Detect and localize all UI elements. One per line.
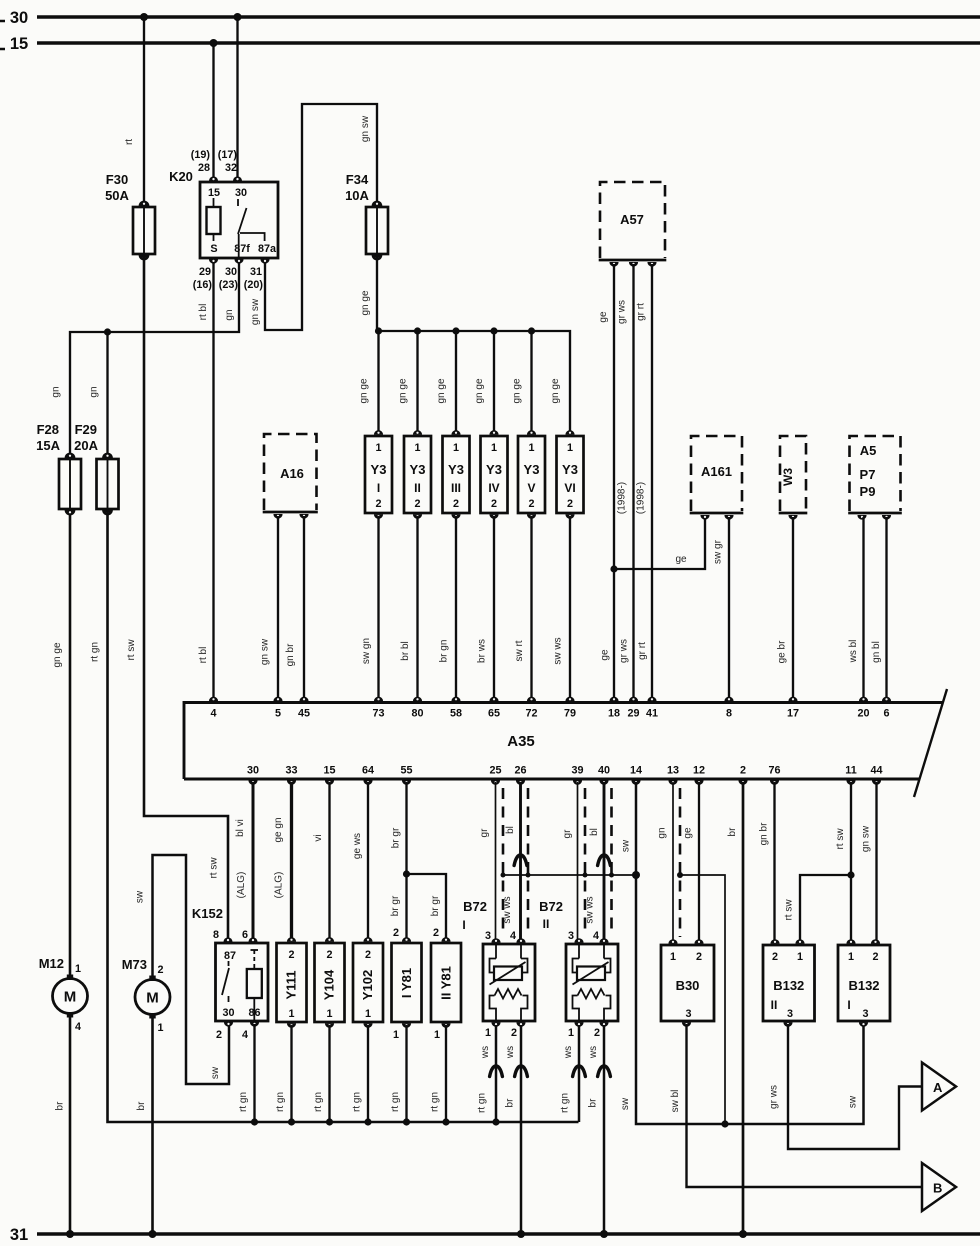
svg-text:rt gn: rt gn bbox=[477, 1093, 488, 1113]
junction shield bus / sw wire bbox=[632, 871, 640, 879]
svg-text:1: 1 bbox=[75, 963, 81, 975]
svg-text:rt gn: rt gn bbox=[560, 1093, 571, 1113]
A5 pin left bbox=[857, 515, 866, 520]
wire rt gn: F29 to valve supply bus bbox=[108, 509, 579, 1122]
svg-text:2: 2 bbox=[375, 498, 381, 510]
wire gn sw: K20-31 to F34 bbox=[265, 104, 377, 330]
svg-text:1: 1 bbox=[568, 1027, 574, 1039]
svg-text:1: 1 bbox=[528, 442, 534, 454]
svg-text:gn ge: gn ge bbox=[398, 378, 409, 403]
wire rt gn: Y81 I to supply bus bbox=[405, 1025, 407, 1122]
junction gn ge bus / Y3 5 bbox=[528, 327, 535, 334]
svg-text:rt gn: rt gn bbox=[90, 642, 101, 662]
svg-text:A5: A5 bbox=[860, 443, 877, 458]
svg-text:80: 80 bbox=[411, 708, 423, 720]
svg-text:gr rt: gr rt bbox=[636, 303, 647, 321]
svg-text:gn ge: gn ge bbox=[359, 378, 370, 403]
sensor B132 II bbox=[763, 939, 815, 1027]
svg-text:Y3: Y3 bbox=[524, 462, 540, 477]
A35 pin 41 (top) bbox=[647, 697, 656, 702]
wire gn ge to Y3 II bbox=[416, 331, 418, 433]
svg-text:gn: gn bbox=[89, 386, 100, 397]
svg-text:2: 2 bbox=[414, 498, 420, 510]
junction Y81 II/rt gn bus bbox=[442, 1118, 449, 1125]
wire gn ge to Y3 IV bbox=[493, 331, 495, 433]
svg-text:rt: rt bbox=[124, 139, 135, 145]
svg-text:20A: 20A bbox=[74, 438, 98, 453]
K20 pin 30 terminal bbox=[234, 259, 243, 264]
svg-text:F30: F30 bbox=[106, 172, 128, 187]
svg-text:gn: gn bbox=[51, 386, 62, 397]
connector plug B bbox=[922, 1163, 956, 1211]
svg-text:rt gn: rt gn bbox=[390, 1092, 401, 1112]
wire rt gn: Y81 II to supply bus bbox=[445, 1025, 447, 1122]
wire rt bl: K20-29 to A35 pin 4 bbox=[212, 262, 214, 700]
svg-text:2: 2 bbox=[872, 951, 878, 963]
A35 pin 13 (bottom) bbox=[668, 780, 677, 785]
wire ws/br: B72 pin to bus 31 bbox=[603, 1025, 606, 1234]
shield dash left (B72 II) bbox=[584, 788, 587, 935]
svg-text:Y3: Y3 bbox=[486, 462, 502, 477]
svg-text:br ws: br ws bbox=[477, 639, 488, 663]
solenoid valve Y102 bbox=[353, 937, 383, 1028]
W3 pin bbox=[788, 515, 797, 520]
svg-text:ws: ws bbox=[588, 1046, 599, 1059]
control unit A5/P7/P9 (dashed) bbox=[848, 436, 902, 513]
sensor W3 (dashed) bbox=[779, 436, 808, 513]
wire gn: branch to F29 bbox=[106, 332, 108, 459]
svg-text:Y3: Y3 bbox=[448, 462, 464, 477]
svg-text:29: 29 bbox=[627, 708, 639, 720]
control unit A161 (dashed) bbox=[690, 436, 744, 513]
svg-text:2: 2 bbox=[511, 1027, 517, 1039]
svg-text:2: 2 bbox=[216, 1029, 222, 1041]
svg-text:45: 45 bbox=[298, 708, 310, 720]
svg-text:ge: ge bbox=[683, 827, 694, 839]
junction M12/bus31 bbox=[66, 1230, 74, 1238]
wire gn sw: A16 to A35 pin 5 bbox=[277, 516, 279, 700]
junction gn ge bus / Y3 2 bbox=[414, 327, 421, 334]
A35 pin 65 (top) bbox=[489, 697, 498, 702]
junction shield 2 bbox=[526, 873, 531, 878]
svg-text:2: 2 bbox=[393, 927, 399, 939]
svg-text:B72: B72 bbox=[539, 899, 563, 914]
wire ge: A35 pin 12 to B30 pin 2 bbox=[698, 782, 700, 940]
motor M73 bbox=[122, 957, 170, 1034]
wire: bus 30 to K20 pin 32 bbox=[236, 17, 238, 180]
A35 pin 6 (top) bbox=[882, 697, 891, 702]
A35 pin 58 (top) bbox=[451, 697, 460, 702]
svg-text:gn sw: gn sw bbox=[250, 298, 261, 325]
svg-text:rt gn: rt gn bbox=[313, 1092, 324, 1112]
wire bl: A35 pin 26 to B72 I pin 4 bbox=[519, 782, 522, 940]
svg-text:gr: gr bbox=[562, 829, 573, 839]
svg-text:2: 2 bbox=[594, 1027, 600, 1039]
svg-text:1: 1 bbox=[848, 951, 854, 963]
svg-text:A35: A35 bbox=[507, 733, 535, 750]
junction shield 3 bbox=[583, 873, 588, 878]
svg-text:sw ws: sw ws bbox=[585, 896, 596, 923]
svg-text:2: 2 bbox=[158, 964, 164, 976]
wire shield drain to sw bbox=[680, 875, 725, 1124]
svg-text:Y3: Y3 bbox=[371, 462, 387, 477]
svg-text:8: 8 bbox=[726, 708, 732, 720]
K152 pin 8 terminal bbox=[223, 937, 232, 942]
svg-text:rt gn: rt gn bbox=[430, 1092, 441, 1112]
A161 pin right bbox=[724, 515, 733, 520]
svg-text:B30: B30 bbox=[676, 978, 700, 993]
lambda sensor B72 II bbox=[566, 930, 618, 1039]
wire ge branch to A161 bbox=[614, 516, 705, 569]
fuse F29 20A bbox=[97, 453, 119, 516]
svg-text:br: br bbox=[727, 827, 738, 837]
svg-text:1: 1 bbox=[453, 442, 459, 454]
svg-text:2: 2 bbox=[696, 951, 702, 963]
svg-text:30: 30 bbox=[225, 266, 237, 278]
svg-text:rt sw: rt sw bbox=[209, 857, 220, 879]
svg-text:6: 6 bbox=[242, 929, 248, 941]
svg-text:gn sw: gn sw bbox=[260, 638, 271, 665]
fuse F34 10A bbox=[366, 201, 388, 261]
svg-text:rt gn: rt gn bbox=[352, 1092, 363, 1112]
wire bus 30 bbox=[37, 15, 980, 18]
wire br bl: Y3 II to A35 pin 80 bbox=[416, 516, 418, 700]
wire rt sw branch to B132 II pin 1 bbox=[800, 875, 851, 940]
svg-text:(17): (17) bbox=[218, 149, 238, 161]
K152 switch contact bbox=[228, 961, 230, 966]
wire ge br: W3 to A35 pin 17 bbox=[792, 517, 794, 700]
shield dash right (B72 I) bbox=[527, 788, 530, 935]
svg-text:gn sw: gn sw bbox=[861, 825, 872, 852]
svg-text:M: M bbox=[146, 990, 159, 1007]
svg-text:I: I bbox=[847, 998, 850, 1012]
svg-text:sw: sw bbox=[135, 890, 146, 903]
svg-text:ge br: ge br bbox=[777, 640, 788, 663]
wire shield drain bus bbox=[503, 874, 636, 876]
svg-text:5: 5 bbox=[275, 708, 281, 720]
A35 pin 73 (top) bbox=[374, 697, 383, 702]
svg-text:gn ge: gn ge bbox=[436, 378, 447, 403]
svg-text:S: S bbox=[210, 243, 217, 255]
svg-text:2: 2 bbox=[365, 949, 371, 961]
svg-text:gr ws: gr ws bbox=[617, 300, 628, 324]
wire gn: A35 pin 13 to B30 pin 1 bbox=[672, 782, 674, 940]
svg-text:rt gn: rt gn bbox=[275, 1092, 286, 1112]
relay K152 box bbox=[216, 943, 269, 1021]
A35 pin 14 (bottom) bbox=[631, 780, 640, 785]
A35 pin 5 (top) bbox=[273, 697, 282, 702]
wire sw: A35 pin 14 down bbox=[636, 782, 864, 1124]
wire gn ge to Y3 I bbox=[377, 331, 379, 433]
svg-text:1: 1 bbox=[434, 1029, 440, 1041]
wire sw gr: A161 to A35 pin 8 bbox=[728, 517, 730, 700]
wire bus 15 bbox=[37, 41, 980, 44]
svg-text:bl: bl bbox=[505, 826, 516, 834]
svg-text:A16: A16 bbox=[280, 466, 304, 481]
svg-text:br bl: br bl bbox=[400, 641, 411, 660]
A35 pin 25 (bottom) bbox=[491, 780, 500, 785]
svg-text:73: 73 bbox=[372, 708, 384, 720]
svg-text:K152: K152 bbox=[192, 906, 223, 921]
control unit A57 (dashed) bbox=[599, 182, 667, 260]
svg-text:vi: vi bbox=[313, 834, 324, 841]
svg-text:rt bl: rt bl bbox=[198, 647, 209, 664]
svg-text:V: V bbox=[527, 481, 535, 495]
svg-text:1: 1 bbox=[365, 1008, 371, 1020]
junction bus30/K20-32 bbox=[234, 13, 242, 21]
svg-text:2: 2 bbox=[326, 949, 332, 961]
lambda sensor B72 I bbox=[483, 930, 535, 1039]
A161 pin left bbox=[700, 515, 709, 520]
arrow on bl wire (B72 I) bbox=[514, 855, 527, 866]
A57 pin 3 bbox=[647, 262, 656, 267]
A35 pin 30 (bottom) bbox=[248, 780, 257, 785]
svg-text:gn br: gn br bbox=[759, 822, 770, 845]
svg-text:1: 1 bbox=[491, 442, 497, 454]
svg-text:30: 30 bbox=[222, 1007, 234, 1019]
A35 pin 39 (bottom) bbox=[573, 780, 582, 785]
A35 pin 4 (top) bbox=[209, 697, 218, 702]
svg-text:29: 29 bbox=[199, 266, 211, 278]
wire gr: A35 pin 25 to B72 I pin 3 bbox=[495, 782, 497, 940]
svg-text:IV: IV bbox=[488, 481, 499, 495]
svg-text:II: II bbox=[771, 998, 778, 1012]
svg-text:Y111: Y111 bbox=[284, 971, 299, 1000]
svg-text:ge: ge bbox=[598, 311, 609, 323]
svg-text:sw: sw bbox=[621, 839, 632, 852]
svg-text:2: 2 bbox=[772, 951, 778, 963]
motor M12 bbox=[39, 956, 88, 1033]
svg-text:sw bl: sw bl bbox=[670, 1090, 681, 1113]
wire gr ws: A57 to A35 pin 29 bbox=[632, 264, 634, 700]
arrow (579) bbox=[573, 1066, 586, 1077]
svg-text:76: 76 bbox=[768, 765, 780, 777]
solenoid valve Y81 II bbox=[431, 937, 461, 1028]
svg-text:3: 3 bbox=[685, 1008, 691, 1020]
svg-text:2: 2 bbox=[453, 498, 459, 510]
svg-text:4: 4 bbox=[593, 930, 599, 942]
control unit A35 outline bbox=[184, 703, 943, 780]
svg-text:sw ws: sw ws bbox=[502, 896, 513, 923]
shield dash left (B72 I) bbox=[502, 788, 505, 935]
svg-text:Y3: Y3 bbox=[562, 462, 578, 477]
svg-text:11: 11 bbox=[845, 765, 856, 777]
wire br: M73 to bus 31 bbox=[151, 1018, 154, 1234]
svg-text:rt sw: rt sw bbox=[126, 639, 137, 661]
svg-text:sw gr: sw gr bbox=[713, 539, 724, 564]
A35 pin 12 (bottom) bbox=[694, 780, 703, 785]
solenoid valve Y3 IV bbox=[481, 430, 508, 519]
shield dash right (B72 II) bbox=[610, 788, 613, 935]
wire gn ge feed bus bbox=[377, 331, 570, 433]
svg-text:sw: sw bbox=[210, 1066, 221, 1079]
svg-text:1: 1 bbox=[797, 951, 803, 963]
wire sw gn: Y3 I to A35 pin 73 bbox=[377, 516, 379, 700]
solenoid valve Y81 I bbox=[392, 937, 422, 1028]
wire gn sw: A35 pin 44 to B132 I pin 2 bbox=[875, 782, 877, 940]
svg-text:sw ws: sw ws bbox=[553, 637, 564, 664]
svg-text:4: 4 bbox=[510, 930, 516, 942]
svg-text:15: 15 bbox=[10, 35, 28, 53]
junction B72/supply bus (496) bbox=[492, 1118, 499, 1125]
svg-text:B: B bbox=[933, 1181, 942, 1196]
svg-text:39: 39 bbox=[571, 765, 583, 777]
K152 pin 2 terminal bbox=[224, 1022, 233, 1027]
svg-text:55: 55 bbox=[400, 765, 412, 777]
svg-text:1: 1 bbox=[393, 1029, 399, 1041]
svg-text:B72: B72 bbox=[463, 899, 487, 914]
svg-text:br gr: br gr bbox=[391, 827, 402, 848]
junction br gr branch bbox=[403, 870, 410, 877]
svg-text:K20: K20 bbox=[169, 169, 193, 184]
junction pin2/bus31 bbox=[739, 1230, 747, 1238]
svg-text:rt gn: rt gn bbox=[238, 1092, 249, 1112]
A35 pin 40 (bottom) bbox=[599, 780, 608, 785]
wire gr: A35 pin 39 to B72 II pin 3 bbox=[577, 782, 579, 940]
svg-text:II Y81: II Y81 bbox=[439, 966, 454, 1000]
svg-text:ws: ws bbox=[563, 1046, 574, 1059]
svg-text:33: 33 bbox=[285, 765, 297, 777]
solenoid valve Y3 I bbox=[365, 430, 392, 519]
svg-text:2: 2 bbox=[491, 498, 497, 510]
arrow on bl wire (B72 II) bbox=[598, 855, 611, 866]
svg-text:(16): (16) bbox=[193, 279, 213, 291]
svg-text:1: 1 bbox=[375, 442, 381, 454]
svg-text:rt bl: rt bl bbox=[198, 304, 209, 321]
svg-text:8: 8 bbox=[213, 929, 219, 941]
wire br: M12 to bus 31 bbox=[69, 1017, 72, 1234]
svg-text:ws bl: ws bl bbox=[848, 640, 859, 664]
svg-text:14: 14 bbox=[630, 765, 642, 777]
svg-text:3: 3 bbox=[568, 930, 574, 942]
wire br gr: A35 pin 55 to Y81 I bbox=[405, 782, 407, 941]
sensor B132 I bbox=[838, 939, 890, 1027]
A35 pin 44 (bottom) bbox=[872, 780, 881, 785]
svg-text:br: br bbox=[136, 1101, 147, 1111]
svg-text:28: 28 bbox=[198, 162, 210, 174]
svg-text:1: 1 bbox=[288, 1008, 294, 1020]
svg-text:Y104: Y104 bbox=[322, 969, 337, 1000]
fuse F28 15A bbox=[59, 453, 81, 516]
svg-text:sw rt: sw rt bbox=[514, 640, 525, 661]
svg-text:32: 32 bbox=[225, 162, 237, 174]
svg-text:26: 26 bbox=[514, 765, 526, 777]
K152 coil bbox=[251, 949, 259, 951]
junction Y81 I/rt gn bus bbox=[403, 1118, 410, 1125]
junction B72/bus31 (521) bbox=[517, 1230, 525, 1238]
svg-text:ge: ge bbox=[675, 554, 687, 565]
junction Y104/rt gn bus bbox=[326, 1118, 333, 1125]
junction shield 4 bbox=[609, 873, 614, 878]
svg-text:br: br bbox=[505, 1098, 516, 1108]
connector plug A bbox=[922, 1063, 956, 1111]
wire sw rt: Y3 V to A35 pin 72 bbox=[530, 516, 532, 700]
svg-text:6: 6 bbox=[883, 708, 889, 720]
A35 pin 80 (top) bbox=[413, 697, 422, 702]
wire rt gn: Y111 to supply bus bbox=[290, 1025, 292, 1122]
svg-text:gr: gr bbox=[479, 828, 490, 838]
A35 pin 72 (top) bbox=[527, 697, 536, 702]
svg-text:ws: ws bbox=[505, 1046, 516, 1059]
svg-text:4: 4 bbox=[75, 1021, 81, 1033]
A16 pin right bbox=[299, 514, 308, 519]
svg-text:13: 13 bbox=[667, 765, 679, 777]
control unit A16 (dashed) bbox=[263, 434, 318, 512]
wire gn br: A35 pin 76 to B132 II pin 2 bbox=[773, 782, 775, 940]
svg-text:gn ge: gn ge bbox=[360, 290, 371, 315]
svg-text:gn ge: gn ge bbox=[550, 378, 561, 403]
svg-text:1: 1 bbox=[670, 951, 676, 963]
svg-text:VI: VI bbox=[564, 481, 575, 495]
solenoid valve Y3 III bbox=[443, 430, 470, 519]
K20 pin 32 terminal bbox=[233, 176, 242, 181]
svg-text:79: 79 bbox=[564, 708, 576, 720]
svg-text:rt sw: rt sw bbox=[784, 899, 795, 921]
junction Y102/rt gn bus bbox=[364, 1118, 371, 1125]
svg-text:30: 30 bbox=[10, 9, 28, 27]
svg-text:gr ws: gr ws bbox=[619, 639, 630, 663]
svg-text:(20): (20) bbox=[244, 279, 264, 291]
wire gr rt: A57 to A35 pin 41 bbox=[651, 264, 653, 700]
A35 pin 76 (bottom) bbox=[770, 780, 779, 785]
svg-text:br gr: br gr bbox=[390, 895, 401, 916]
arrow (604) bbox=[598, 1066, 611, 1077]
svg-text:br: br bbox=[55, 1101, 66, 1111]
svg-text:gn: gn bbox=[657, 827, 668, 838]
solenoid valve Y3 V bbox=[518, 430, 545, 519]
wire br gr branch to Y81 II bbox=[407, 874, 447, 941]
svg-text:B132: B132 bbox=[848, 978, 879, 993]
wire gn ge to Y3 III bbox=[455, 331, 457, 433]
A35 pin 11 (bottom) bbox=[846, 780, 855, 785]
wire ws/br: B72 pin to bus 31 bbox=[520, 1025, 523, 1234]
shield dash (B30) bbox=[679, 788, 682, 937]
K20 pin 29 terminal bbox=[209, 259, 218, 264]
svg-text:sw gn: sw gn bbox=[361, 638, 372, 664]
junction Y111/rt gn bus bbox=[288, 1118, 295, 1125]
wire ws/rt gn: B72 pin to supply bus bbox=[578, 1025, 581, 1122]
wire gn br: A16 to A35 pin 45 bbox=[303, 516, 305, 700]
svg-text:gn br: gn br bbox=[285, 643, 296, 666]
svg-text:gr ws: gr ws bbox=[769, 1085, 780, 1109]
A35 pin 79 (top) bbox=[565, 697, 574, 702]
svg-text:II: II bbox=[543, 917, 550, 931]
A35 pin 20 (top) bbox=[859, 697, 868, 702]
junction ge/A161 branch bbox=[610, 565, 617, 572]
svg-text:Y102: Y102 bbox=[360, 970, 375, 1000]
svg-text:2: 2 bbox=[288, 949, 294, 961]
svg-text:ge gn: ge gn bbox=[273, 817, 284, 842]
arrow (521) bbox=[515, 1066, 528, 1077]
solenoid valve Y3 II bbox=[404, 430, 431, 519]
junction rt sw branch bbox=[847, 871, 854, 878]
svg-text:ge: ge bbox=[600, 649, 611, 661]
A16 pin left bbox=[273, 514, 282, 519]
svg-text:M: M bbox=[64, 989, 77, 1006]
svg-text:15: 15 bbox=[323, 765, 335, 777]
solenoid valve Y111 bbox=[277, 937, 307, 1028]
svg-text:bl: bl bbox=[589, 828, 600, 836]
svg-text:br gr: br gr bbox=[430, 895, 441, 916]
junction B72/bus31 (604) bbox=[600, 1230, 608, 1238]
junction F29 branch bbox=[104, 328, 111, 335]
A35 pin 45 (top) bbox=[299, 697, 308, 702]
svg-text:30: 30 bbox=[247, 765, 259, 777]
svg-text:III: III bbox=[451, 481, 461, 495]
wire gn bl: A5 to A35 pin 6 bbox=[885, 517, 887, 700]
wire gn: K20-30 to F28/F29 feed bbox=[70, 262, 239, 459]
svg-text:44: 44 bbox=[870, 765, 882, 777]
